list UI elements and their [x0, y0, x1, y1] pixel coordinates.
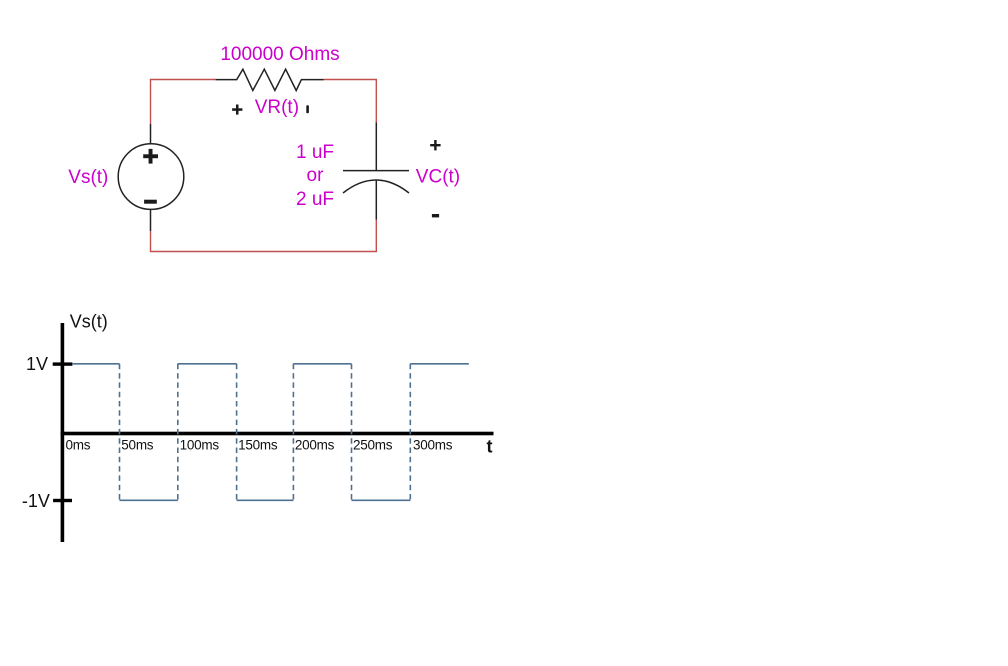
svg-text:100ms: 100ms	[180, 438, 220, 453]
svg-text:50ms: 50ms	[121, 438, 154, 453]
svg-text:VR(t): VR(t)	[255, 97, 299, 118]
svg-text:1V: 1V	[26, 354, 48, 374]
svg-text:150ms: 150ms	[238, 438, 278, 453]
svg-text:250ms: 250ms	[353, 438, 393, 453]
svg-text:t: t	[487, 437, 493, 457]
svg-text:Vs(t): Vs(t)	[70, 312, 108, 332]
svg-text:200ms: 200ms	[295, 438, 335, 453]
svg-text:or: or	[307, 165, 325, 186]
svg-text:-1V: -1V	[22, 491, 50, 511]
svg-text:VC(t): VC(t)	[416, 167, 460, 188]
svg-text:0ms: 0ms	[66, 438, 91, 453]
svg-text:1 uF: 1 uF	[296, 142, 334, 163]
svg-text:2 uF: 2 uF	[296, 189, 334, 210]
svg-text:300ms: 300ms	[413, 438, 453, 453]
svg-text:Vs(t): Vs(t)	[68, 167, 108, 188]
svg-text:100000 Ohms: 100000 Ohms	[220, 44, 339, 65]
